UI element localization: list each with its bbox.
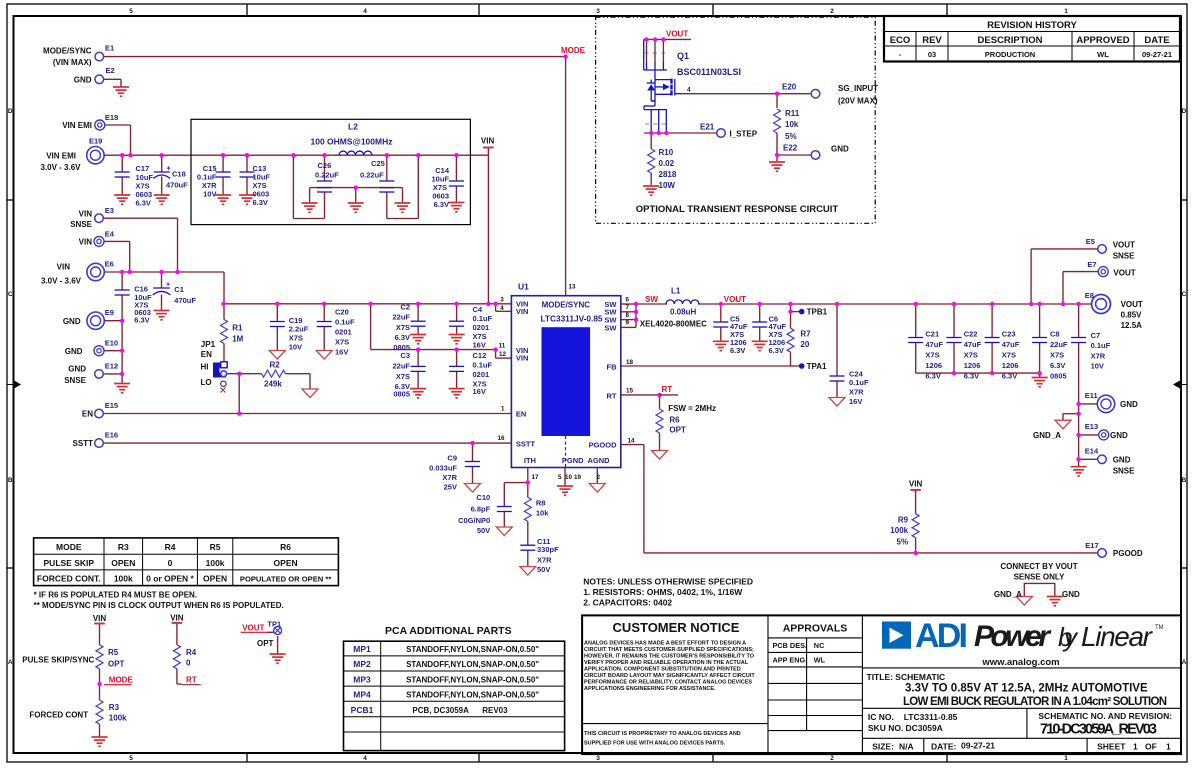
svg-text:L2: L2 — [348, 122, 358, 132]
svg-text:5: 5 — [129, 755, 133, 762]
svg-text:C10: C10 — [476, 493, 490, 502]
svg-text:E10: E10 — [105, 339, 118, 348]
svg-text:E17: E17 — [1085, 541, 1098, 550]
svg-text:E6: E6 — [105, 260, 114, 269]
svg-text:GND: GND — [63, 317, 81, 326]
svg-text:10V: 10V — [1091, 361, 1104, 370]
svg-text:AGND: AGND — [587, 456, 610, 465]
svg-text:VIN EMI: VIN EMI — [62, 121, 92, 130]
svg-text:09-27-21: 09-27-21 — [1142, 50, 1172, 59]
svg-text:16: 16 — [498, 435, 506, 442]
svg-text:GND: GND — [1120, 400, 1138, 409]
svg-text:OPEN: OPEN — [274, 558, 298, 568]
svg-text:DC3059A: DC3059A — [906, 723, 943, 733]
svg-text:22uF: 22uF — [392, 362, 410, 371]
svg-text:LTC3311-0.85: LTC3311-0.85 — [904, 712, 958, 722]
svg-text:0.1uF: 0.1uF — [473, 361, 493, 370]
svg-text:E12: E12 — [105, 362, 118, 371]
svg-text:SW: SW — [645, 295, 658, 304]
svg-text:D: D — [1182, 108, 1187, 115]
svg-text:SW: SW — [604, 324, 617, 333]
svg-text:C21: C21 — [925, 329, 939, 338]
svg-text:VOUT: VOUT — [724, 295, 746, 304]
svg-text:NOTES: UNLESS OTHERWISE SPECIF: NOTES: UNLESS OTHERWISE SPECIFIED — [583, 577, 753, 587]
svg-text:PRODUCTION: PRODUCTION — [985, 50, 1035, 59]
svg-text:SHEET: SHEET — [1097, 742, 1126, 752]
svg-text:X7R: X7R — [849, 388, 864, 397]
svg-text:4: 4 — [363, 8, 367, 15]
svg-text:OF: OF — [1145, 742, 1157, 752]
svg-text:10W: 10W — [659, 181, 676, 190]
svg-text:0.1uF: 0.1uF — [473, 314, 493, 323]
svg-text:RT: RT — [662, 385, 673, 394]
svg-text:R5: R5 — [210, 542, 221, 552]
svg-text:GND: GND — [68, 365, 86, 374]
svg-text:E9: E9 — [105, 308, 114, 317]
svg-text:1: 1 — [1166, 742, 1171, 752]
svg-text:1: 1 — [1133, 742, 1138, 752]
svg-text:FORCED CONT.: FORCED CONT. — [37, 574, 101, 584]
svg-text:1206: 1206 — [1002, 361, 1019, 370]
svg-text:ITH: ITH — [524, 456, 536, 465]
svg-text:JP1: JP1 — [201, 340, 216, 349]
svg-text:PULSE SKIP: PULSE SKIP — [44, 558, 95, 568]
svg-text:MODE: MODE — [561, 46, 586, 55]
svg-text:6.3V: 6.3V — [769, 346, 784, 355]
svg-text:STANDOFF,NYLON,SNAP-ON,0.50": STANDOFF,NYLON,SNAP-ON,0.50" — [406, 675, 539, 684]
svg-text:6.8pF: 6.8pF — [471, 505, 491, 514]
svg-text:47uF: 47uF — [1002, 340, 1020, 349]
svg-text:0.22uF: 0.22uF — [315, 171, 339, 180]
svg-text:3: 3 — [500, 297, 504, 304]
svg-text:09-27-21: 09-27-21 — [961, 741, 995, 751]
svg-text:ECO: ECO — [890, 35, 911, 46]
svg-text:GND: GND — [1110, 431, 1128, 440]
svg-text:E11: E11 — [1085, 391, 1098, 400]
svg-text:VIN: VIN — [516, 353, 529, 362]
svg-text:11: 11 — [499, 343, 506, 350]
svg-text:8: 8 — [626, 312, 630, 319]
svg-text:** MODE/SYNC PIN IS CLOCK OUTP: ** MODE/SYNC PIN IS CLOCK OUTPUT WHEN R6… — [34, 601, 284, 610]
svg-text:6.3V: 6.3V — [1050, 361, 1065, 370]
svg-text:3.0V - 3.6V: 3.0V - 3.6V — [41, 277, 82, 286]
svg-text:X7S: X7S — [1050, 351, 1064, 360]
svg-text:R1: R1 — [232, 324, 243, 333]
svg-text:E1: E1 — [105, 44, 114, 53]
svg-text:www.analog.com: www.analog.com — [981, 657, 1059, 668]
svg-text:6.3V: 6.3V — [730, 346, 745, 355]
svg-text:R5: R5 — [108, 648, 119, 657]
svg-text:E19: E19 — [89, 137, 102, 146]
svg-text:0.02: 0.02 — [659, 159, 675, 168]
svg-text:GND: GND — [65, 347, 83, 356]
svg-text:EN: EN — [82, 410, 93, 419]
svg-text:STANDOFF,NYLON,SNAP-ON,0.50": STANDOFF,NYLON,SNAP-ON,0.50" — [406, 690, 539, 699]
svg-text:C: C — [1182, 291, 1187, 298]
svg-text:MP4: MP4 — [353, 689, 371, 699]
svg-text:9: 9 — [626, 320, 630, 327]
svg-text:DESCRIPTION: DESCRIPTION — [978, 35, 1043, 46]
svg-text:E21: E21 — [700, 123, 715, 132]
svg-text:2: 2 — [830, 755, 834, 762]
svg-text:1: 1 — [1064, 8, 1068, 15]
svg-text:X7S: X7S — [396, 323, 410, 332]
svg-text:6.3V: 6.3V — [434, 200, 449, 209]
svg-text:E4: E4 — [105, 230, 115, 239]
svg-text:APPLICATION. COMPONENT SUBSTI: APPLICATION. COMPONENT SUBSTITUTION AND … — [584, 667, 741, 673]
svg-text:X7S: X7S — [289, 334, 303, 343]
svg-text:1. RESISTORS: OHMS, 0402, 1%,: 1. RESISTORS: OHMS, 0402, 1%, 1/16W — [583, 587, 743, 597]
svg-text:R10: R10 — [659, 148, 674, 157]
svg-text:2. CAPACITORS: 0402: 2. CAPACITORS: 0402 — [583, 598, 672, 608]
svg-text:SNSE: SNSE — [1113, 251, 1135, 260]
svg-text:C0G/NP0: C0G/NP0 — [458, 516, 490, 525]
svg-text:C18: C18 — [172, 170, 186, 179]
svg-text:RT: RT — [607, 392, 617, 401]
svg-text:0.08uH: 0.08uH — [670, 308, 696, 317]
svg-text:19: 19 — [574, 474, 582, 481]
svg-text:* IF R6 IS POPULATED R4 MUST B: * IF R6 IS POPULATED R4 MUST BE OPEN. — [34, 590, 197, 599]
svg-text:TPA1: TPA1 — [807, 362, 827, 371]
svg-text:BSC011N03LSI: BSC011N03LSI — [677, 67, 741, 77]
svg-text:E7: E7 — [1087, 260, 1096, 269]
svg-text:17: 17 — [532, 474, 540, 481]
svg-text:R11: R11 — [785, 109, 800, 118]
svg-text:SKU NO.: SKU NO. — [868, 723, 903, 733]
svg-text:0.85V: 0.85V — [1121, 311, 1143, 320]
svg-text:POPULATED OR OPEN **: POPULATED OR OPEN ** — [240, 575, 331, 584]
svg-text:18: 18 — [626, 359, 634, 366]
svg-text:R6: R6 — [280, 542, 291, 552]
svg-text:VERIFY PROPER AND RELIABLE OPE: VERIFY PROPER AND RELIABLE OPERATION IN … — [584, 660, 749, 666]
svg-text:10: 10 — [565, 474, 573, 481]
svg-text:VIN: VIN — [79, 210, 93, 219]
svg-text:6: 6 — [626, 296, 630, 303]
svg-text:3.0V - 3.6V: 3.0V - 3.6V — [40, 163, 81, 172]
svg-text:100k: 100k — [114, 574, 133, 584]
svg-text:3.3V TO 0.85V AT 12.5A, 2MHz A: 3.3V TO 0.85V AT 12.5A, 2MHz AUTOMOTIVE — [905, 683, 1148, 695]
svg-text:A: A — [1182, 659, 1187, 666]
svg-text:EN: EN — [516, 410, 526, 419]
svg-text:6.3V: 6.3V — [964, 372, 979, 381]
svg-text:PERFORMANCE OR RELIABILITY. C: PERFORMANCE OR RELIABILITY. CONTACT ANAL… — [584, 680, 752, 686]
svg-text:0201: 0201 — [473, 370, 490, 379]
svg-text:13: 13 — [569, 284, 577, 291]
svg-text:100k: 100k — [109, 713, 127, 722]
svg-text:C22: C22 — [964, 329, 978, 338]
svg-text:THIS CIRCUIT IS PROPRIETARY TO: THIS CIRCUIT IS PROPRIETARY TO ANALOG DE… — [584, 731, 741, 737]
svg-text:X7R: X7R — [1091, 352, 1106, 361]
svg-text:0.1uF: 0.1uF — [335, 317, 355, 326]
svg-text:U1: U1 — [518, 282, 529, 292]
svg-text:VIN: VIN — [79, 238, 93, 247]
svg-text:X7S: X7S — [1002, 351, 1016, 360]
svg-text:Power: Power — [974, 620, 1052, 653]
svg-text:E16: E16 — [105, 431, 118, 440]
svg-text:C: C — [8, 291, 13, 298]
svg-text:PCB, DC3059A REV03: PCB, DC3059A REV03 — [412, 706, 508, 715]
svg-text:MP1: MP1 — [353, 644, 371, 654]
svg-text:VIN: VIN — [516, 307, 529, 316]
svg-text:0.22uF: 0.22uF — [360, 171, 384, 180]
svg-text:VOUT: VOUT — [242, 623, 264, 632]
svg-text:C17: C17 — [136, 164, 150, 173]
svg-text:6.3V: 6.3V — [925, 372, 940, 381]
svg-text:2: 2 — [830, 8, 834, 15]
svg-text:0805: 0805 — [393, 390, 410, 399]
svg-text:WL: WL — [814, 656, 826, 665]
svg-text:(VIN MAX): (VIN MAX) — [53, 58, 92, 67]
svg-text:STANDOFF,NYLON,SNAP-ON,0.50": STANDOFF,NYLON,SNAP-ON,0.50" — [406, 645, 539, 654]
svg-text:10k: 10k — [536, 509, 549, 518]
svg-text:50V: 50V — [477, 526, 490, 535]
svg-text:C9: C9 — [447, 454, 457, 463]
svg-text:E3: E3 — [105, 206, 114, 215]
svg-text:C26: C26 — [318, 161, 332, 170]
svg-text:C20: C20 — [335, 307, 349, 316]
svg-text:SNSE: SNSE — [70, 220, 92, 229]
svg-text:R8: R8 — [536, 499, 546, 508]
svg-text:C4: C4 — [473, 305, 483, 314]
svg-text:2818: 2818 — [659, 170, 677, 179]
svg-text:X7R: X7R — [442, 473, 457, 482]
svg-text:FSW = 2MHz: FSW = 2MHz — [668, 404, 716, 413]
svg-text:3: 3 — [596, 8, 600, 15]
svg-text:SUPPLIED FOR USE WITH ANALOG D: SUPPLIED FOR USE WITH ANALOG DEVICES PAR… — [584, 740, 726, 746]
svg-text:SCHEMATIC NO. AND REVISION:: SCHEMATIC NO. AND REVISION: — [1038, 711, 1172, 721]
svg-text:VOUT: VOUT — [1113, 268, 1135, 277]
svg-text:SENSE ONLY: SENSE ONLY — [1014, 572, 1065, 581]
svg-text:10V: 10V — [289, 343, 302, 352]
svg-text:4: 4 — [363, 755, 367, 762]
svg-text:VIN: VIN — [481, 137, 495, 146]
svg-text:R6: R6 — [669, 416, 680, 425]
svg-text:R7: R7 — [800, 330, 811, 339]
svg-text:MP3: MP3 — [353, 674, 371, 684]
svg-text:TITLE: SCHEMATIC: TITLE: SCHEMATIC — [867, 672, 946, 682]
svg-text:SIZE:: SIZE: — [872, 742, 894, 752]
svg-text:2.2uF: 2.2uF — [289, 325, 309, 334]
svg-text:PGND: PGND — [562, 456, 584, 465]
svg-text:6.3V: 6.3V — [395, 333, 410, 342]
svg-text:EN: EN — [201, 350, 212, 359]
svg-text:R3: R3 — [109, 703, 120, 712]
svg-text:XEL4020-800MEC: XEL4020-800MEC — [640, 320, 707, 329]
svg-text:470uF: 470uF — [166, 181, 188, 190]
svg-text:0.1uF: 0.1uF — [1091, 341, 1111, 350]
svg-text:REV: REV — [922, 35, 942, 46]
svg-text:PULSE SKIP/SYNC: PULSE SKIP/SYNC — [22, 656, 94, 665]
svg-text:710-DC3059A_REV03: 710-DC3059A_REV03 — [1040, 722, 1157, 738]
svg-text:OPTIONAL TRANSIENT RESPONSE CI: OPTIONAL TRANSIENT RESPONSE CIRCUIT — [636, 204, 839, 215]
svg-text:5%: 5% — [785, 132, 797, 141]
svg-text:PGOOD: PGOOD — [589, 441, 618, 450]
svg-text:X7S: X7S — [925, 351, 939, 360]
svg-text:47uF: 47uF — [964, 340, 982, 349]
svg-text:12: 12 — [499, 351, 507, 358]
svg-text:ADI: ADI — [915, 617, 968, 655]
svg-text:B: B — [8, 477, 13, 484]
svg-text:PGOOD: PGOOD — [1113, 549, 1143, 558]
svg-text:C7: C7 — [1091, 331, 1101, 340]
svg-text:OPT: OPT — [108, 660, 125, 669]
svg-text:CUSTOMER NOTICE: CUSTOMER NOTICE — [613, 620, 740, 635]
svg-text:VOUT: VOUT — [1113, 241, 1135, 250]
svg-text:LO: LO — [201, 378, 212, 387]
svg-text:R2: R2 — [270, 361, 281, 370]
svg-text:by: by — [1058, 622, 1079, 652]
svg-text:TPB1: TPB1 — [807, 308, 828, 317]
svg-text:VIN: VIN — [57, 263, 71, 272]
svg-text:I_STEP: I_STEP — [730, 130, 758, 139]
svg-text:5%: 5% — [897, 538, 909, 547]
svg-text:10V: 10V — [203, 190, 216, 199]
svg-text:RT: RT — [186, 675, 197, 684]
svg-text:OPEN: OPEN — [111, 558, 135, 568]
svg-text:6.3V: 6.3V — [136, 199, 151, 208]
svg-text:E8: E8 — [1085, 291, 1094, 300]
svg-text:249k: 249k — [264, 380, 282, 389]
svg-text:16V: 16V — [849, 397, 862, 406]
svg-text:C1: C1 — [174, 285, 184, 294]
svg-text:4: 4 — [687, 87, 691, 94]
svg-text:TM: TM — [1155, 625, 1164, 631]
svg-text:6.3V: 6.3V — [1002, 372, 1017, 381]
svg-text:SSTT: SSTT — [73, 439, 94, 448]
svg-text:E13: E13 — [1085, 422, 1098, 431]
svg-text:GND_A: GND_A — [1033, 431, 1061, 440]
svg-text:MP2: MP2 — [353, 659, 371, 669]
svg-text:VIN: VIN — [909, 480, 923, 489]
svg-text:LOW EMI BUCK REGULATOR IN A 1.: LOW EMI BUCK REGULATOR IN A 1.04cm² SOLU… — [903, 696, 1167, 708]
svg-text:GND_A: GND_A — [994, 590, 1022, 599]
svg-text:470uF: 470uF — [174, 296, 196, 305]
svg-text:LTC3311JV-0.85: LTC3311JV-0.85 — [540, 314, 602, 324]
svg-text:VOUT: VOUT — [1121, 300, 1143, 309]
svg-text:VIN EMI: VIN EMI — [46, 151, 76, 160]
svg-text:OPT: OPT — [669, 426, 686, 435]
svg-text:GND: GND — [74, 76, 92, 85]
svg-text:25V: 25V — [444, 483, 457, 492]
svg-text:+: + — [166, 282, 170, 289]
svg-text:C2: C2 — [400, 303, 410, 312]
svg-text:C12: C12 — [473, 351, 487, 360]
svg-text:4: 4 — [500, 305, 504, 312]
svg-text:2: 2 — [597, 474, 601, 481]
svg-text:E20: E20 — [782, 83, 797, 92]
svg-text:VIN: VIN — [170, 614, 184, 623]
svg-text:16V: 16V — [473, 341, 486, 350]
svg-text:APPLICATIONS ENGINEERING FOR A: APPLICATIONS ENGINEERING FOR ASSISTANCE. — [584, 686, 716, 692]
svg-text:0: 0 — [168, 558, 173, 568]
svg-text:5: 5 — [129, 8, 133, 15]
svg-text:X7S: X7S — [964, 351, 978, 360]
svg-text:50V: 50V — [537, 565, 550, 574]
svg-text:1: 1 — [1064, 755, 1068, 762]
svg-text:SG_INPUT: SG_INPUT — [838, 84, 878, 93]
svg-text:E18: E18 — [105, 113, 118, 122]
svg-text:SNSE: SNSE — [64, 376, 86, 385]
svg-text:Linear: Linear — [1081, 621, 1154, 652]
svg-text:TP1: TP1 — [267, 620, 281, 629]
svg-text:STANDOFF,NYLON,SNAP-ON,0.50": STANDOFF,NYLON,SNAP-ON,0.50" — [406, 660, 539, 669]
svg-text:E2: E2 — [106, 66, 115, 75]
svg-text:(20V MAX): (20V MAX) — [838, 97, 878, 106]
svg-text:APPROVALS: APPROVALS — [783, 623, 848, 635]
svg-text:NC: NC — [814, 641, 825, 650]
svg-text:APP ENG.: APP ENG. — [773, 656, 808, 665]
svg-text:REVISION HISTORY: REVISION HISTORY — [987, 20, 1077, 31]
svg-text:6.3V: 6.3V — [134, 316, 149, 325]
svg-text:C3: C3 — [400, 351, 410, 360]
svg-text:100 OHMS@100MHz: 100 OHMS@100MHz — [311, 137, 393, 147]
svg-text:16V: 16V — [335, 347, 348, 356]
svg-text:X7R: X7R — [537, 556, 552, 565]
svg-text:1206: 1206 — [925, 361, 942, 370]
svg-text:0.1uF: 0.1uF — [849, 378, 869, 387]
svg-text:0: 0 — [186, 659, 191, 668]
svg-text:1M: 1M — [232, 335, 243, 344]
svg-text:0805: 0805 — [1050, 372, 1067, 381]
svg-text:14: 14 — [628, 437, 636, 444]
svg-text:0.033uF: 0.033uF — [429, 464, 457, 473]
svg-text:330pF: 330pF — [537, 545, 559, 554]
svg-text:1: 1 — [501, 405, 505, 412]
svg-text:20: 20 — [800, 340, 809, 349]
svg-text:CIRCUIT THAT MEETS CUSTOMER-SU: CIRCUIT THAT MEETS CUSTOMER-SUPPLIED SPE… — [584, 647, 754, 653]
svg-text:C8: C8 — [1050, 329, 1060, 338]
svg-text:WL: WL — [1097, 50, 1109, 59]
svg-text:E22: E22 — [783, 144, 798, 153]
svg-text:A: A — [8, 659, 13, 666]
svg-text:HI: HI — [201, 363, 209, 372]
svg-text:47uF: 47uF — [925, 340, 943, 349]
svg-text:15: 15 — [626, 388, 634, 395]
svg-text:1206: 1206 — [964, 361, 981, 370]
svg-text:C25: C25 — [371, 159, 385, 168]
svg-text:VOUT: VOUT — [666, 30, 688, 39]
svg-text:MODE/SYNC: MODE/SYNC — [542, 300, 591, 309]
svg-text:16V: 16V — [473, 387, 486, 396]
svg-text:R9: R9 — [898, 516, 909, 525]
svg-text:SSTT: SSTT — [516, 439, 536, 448]
svg-text:GND: GND — [1062, 590, 1080, 599]
svg-text:IC NO.: IC NO. — [868, 712, 894, 722]
svg-text:22uF: 22uF — [392, 313, 410, 322]
svg-text:22uF: 22uF — [1050, 340, 1068, 349]
svg-text:MODE/SYNC: MODE/SYNC — [43, 47, 92, 56]
svg-text:B: B — [1182, 477, 1187, 484]
svg-text:ANALOG DEVICES HAS MADE A BEST: ANALOG DEVICES HAS MADE A BEST EFFORT TO… — [584, 641, 746, 647]
svg-text:100k: 100k — [206, 558, 225, 568]
svg-text:OPEN: OPEN — [203, 574, 227, 584]
svg-text:7: 7 — [626, 304, 630, 311]
svg-text:CONNECT BY VOUT: CONNECT BY VOUT — [1000, 562, 1077, 571]
svg-text:6.3V: 6.3V — [253, 198, 268, 207]
svg-text:X7S: X7S — [396, 372, 410, 381]
svg-text:VIN: VIN — [93, 614, 107, 623]
svg-text:MODE: MODE — [56, 542, 82, 552]
svg-text:0 or OPEN *: 0 or OPEN * — [146, 574, 194, 584]
svg-text:DATE: DATE — [1144, 35, 1169, 46]
svg-text:E15: E15 — [105, 401, 118, 410]
svg-text:100k: 100k — [890, 526, 908, 535]
svg-text:12.5A: 12.5A — [1121, 321, 1143, 330]
svg-text:Q1: Q1 — [677, 51, 689, 61]
svg-text:0201: 0201 — [335, 327, 352, 336]
svg-text:C23: C23 — [1002, 329, 1016, 338]
svg-text:PCB1: PCB1 — [351, 705, 374, 715]
